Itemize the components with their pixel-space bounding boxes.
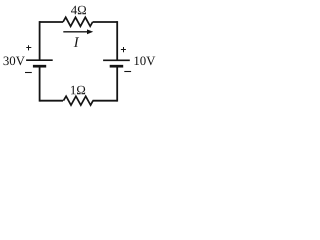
wire bottom-left segment [40, 100, 63, 102]
wire right upper (into battery V2) [116, 21, 118, 60]
wire left lower (from battery V1 to bottom) [39, 66, 41, 101]
plus sign of V1 [26, 45, 31, 50]
minus sign of V2 [124, 71, 131, 73]
wire right lower [116, 66, 118, 101]
battery V2 long plate (+) [103, 59, 130, 61]
label 10V [135, 56, 156, 65]
current arrow [63, 31, 87, 33]
label 30V [4, 56, 25, 65]
battery V1 short plate (-) [33, 65, 46, 68]
wire bottom-right segment [93, 100, 118, 102]
resistor R1 (4 ohm) zigzag [63, 17, 93, 26]
wire top-right segment [93, 21, 118, 23]
label 1 ohm [71, 86, 85, 94]
wire left upper [39, 21, 41, 60]
wire top-left segment [40, 21, 63, 23]
minus sign of V1 [25, 72, 32, 74]
battery V1 long plate (+) [26, 59, 53, 61]
label 4 ohm [71, 6, 86, 14]
label I (current) [74, 37, 79, 46]
battery V2 short plate (-) [110, 65, 124, 68]
plus sign of V2 [121, 47, 126, 52]
current arrow head [87, 29, 93, 34]
resistor R2 (1 ohm) zigzag [63, 96, 93, 105]
